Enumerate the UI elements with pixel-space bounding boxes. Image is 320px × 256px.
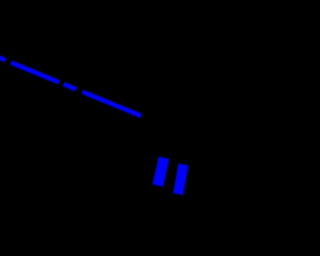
wire (dashed blue net, segment 3)	[64, 84, 77, 89]
capacitor C1 plate 2	[173, 164, 188, 195]
capacitor C1 plate 1	[152, 157, 169, 187]
wire (dashed blue net, segment 4)	[82, 92, 141, 116]
wire (dashed blue net, segment 1)	[0, 56, 5, 60]
wire (dashed blue net, segment 2)	[11, 63, 59, 83]
